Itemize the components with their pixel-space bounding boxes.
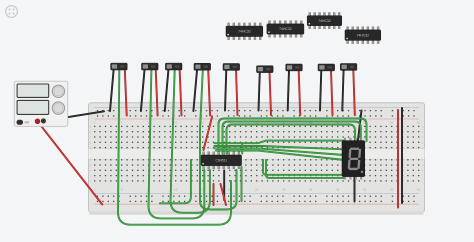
svg-text:56: 56 (390, 187, 394, 191)
svg-text:31: 31 (255, 187, 259, 191)
svg-text:74HC32: 74HC32 (238, 30, 251, 34)
svg-text:61: 61 (417, 187, 421, 191)
svg-text:74HC32: 74HC32 (279, 27, 292, 31)
svg-text:41: 41 (309, 187, 313, 191)
svg-text:CD4511: CD4511 (216, 158, 228, 162)
svg-text:36: 36 (282, 187, 286, 191)
svg-text:16: 16 (174, 187, 178, 191)
svg-text:46: 46 (336, 187, 340, 191)
svg-text:16: 16 (174, 120, 178, 124)
svg-text:61: 61 (417, 120, 421, 124)
svg-text:51: 51 (363, 187, 367, 191)
svg-text:21: 21 (201, 120, 205, 124)
svg-text:56: 56 (390, 120, 394, 124)
svg-text:74HC32: 74HC32 (357, 33, 370, 37)
svg-text:74HC32: 74HC32 (318, 19, 331, 23)
